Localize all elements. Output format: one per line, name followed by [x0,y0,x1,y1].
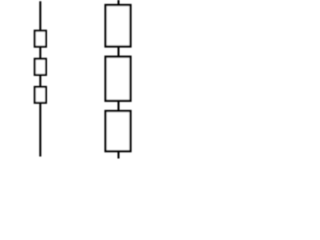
resistor R2 (small box, left chain middle) [35,59,46,75]
resistor R1 (small box, left chain top) [35,31,46,47]
resistor R3 (small box, left chain bottom) [35,87,46,103]
wire left branch vertical [39,1,41,156]
resistor R5 (large box, right chain middle) [106,57,131,101]
wire right branch vertical [118,0,120,159]
resistor R4 (large box, right chain top) [106,5,131,47]
resistor R6 (large box, right chain bottom) [106,111,131,151]
